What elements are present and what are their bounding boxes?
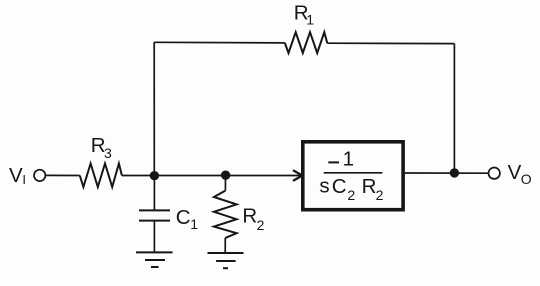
svg-text:R: R (362, 175, 377, 198)
output terminal VO (489, 168, 500, 179)
wire junction1 down to C1 (153, 176, 155, 211)
svg-text:2: 2 (376, 187, 384, 203)
label R3 (91, 134, 112, 161)
wire top left (154, 41, 285, 44)
svg-text:I: I (22, 172, 26, 187)
svg-text:R: R (242, 205, 257, 228)
svg-text:V: V (508, 161, 522, 184)
block fraction bar (324, 172, 383, 174)
svg-text:s: s (319, 175, 329, 198)
block denominator sC2R2 (319, 175, 383, 203)
label R2 (242, 205, 264, 234)
node junction 1 (150, 171, 159, 180)
svg-text:1: 1 (306, 11, 314, 27)
svg-text:2: 2 (347, 187, 355, 203)
op-amp block U1 (-1/sC2R2) (303, 142, 403, 210)
svg-text:2: 2 (257, 217, 265, 233)
wire block to output (405, 172, 489, 174)
label VI (9, 164, 26, 187)
resistor R3 (80, 164, 122, 188)
svg-text:1: 1 (343, 147, 354, 170)
node junction 2 (221, 171, 230, 180)
svg-text:V: V (9, 164, 23, 187)
ground under C1 (136, 252, 173, 267)
resistor R1 (285, 32, 328, 53)
block numerator -1 (328, 147, 354, 170)
label C1 (176, 206, 198, 232)
wire right riser (453, 44, 455, 173)
input terminal VI (34, 170, 45, 181)
wire left riser (feedback) (153, 42, 155, 175)
node output junction (450, 168, 459, 177)
wire input to R3 (45, 174, 79, 176)
svg-text:C: C (176, 206, 191, 229)
label R1 (294, 1, 314, 27)
svg-text:1: 1 (190, 216, 198, 232)
wire top right (327, 42, 454, 44)
resistor R2 (214, 175, 237, 253)
wire R3 to block arrow (122, 175, 302, 177)
svg-text:C: C (332, 175, 347, 198)
arrowhead into block (293, 170, 302, 181)
ground under R2 (208, 253, 244, 268)
svg-text:3: 3 (104, 145, 112, 161)
svg-text:O: O (521, 171, 532, 187)
capacitor C1 (139, 210, 170, 252)
label VO (508, 161, 532, 187)
